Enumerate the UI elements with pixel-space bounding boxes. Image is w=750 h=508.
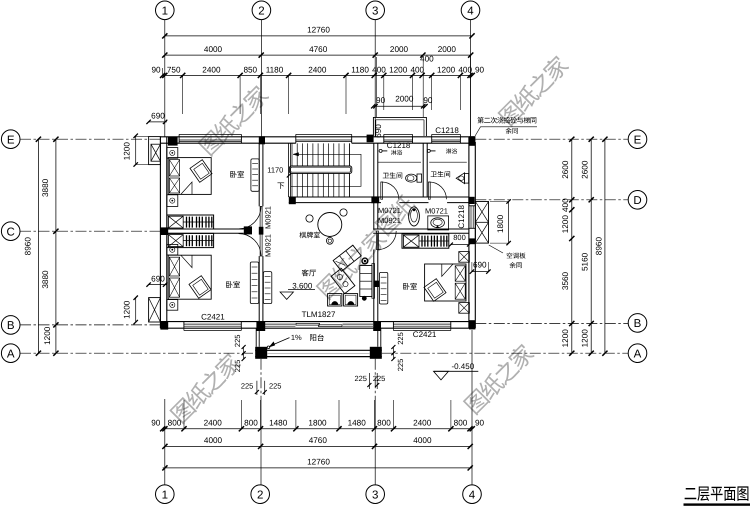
svg-text:1800: 1800 [308,419,327,428]
window C1218 bath1 [384,133,413,135]
svg-text:4: 4 [467,5,474,17]
grid bubble 1 bottom [156,485,175,504]
shower divider bath1 [378,161,421,163]
watermark 图纸之家 bottom-right [462,342,536,416]
door bedroom1 [260,206,262,228]
dresser bedroom3 left wall [379,272,387,304]
svg-text:M0921: M0921 [264,234,273,257]
dim detail chain bottom [163,428,473,430]
svg-text:1200: 1200 [43,326,52,345]
grid bubble A left [1,344,20,363]
balcony wall bottom [255,349,382,351]
svg-text:8960: 8960 [23,237,32,256]
round table [318,213,342,237]
wardrobe bedroom1 [167,215,214,229]
label 淋浴 bath2 [446,148,451,153]
svg-text:1: 1 [162,489,168,501]
fold bedroom1 [181,182,192,194]
balcony wall left [255,328,257,347]
wardrobe bedroom2 [167,233,214,247]
svg-text:2400: 2400 [204,419,223,428]
svg-text:3: 3 [372,489,378,501]
svg-text:1480: 1480 [348,419,367,428]
AC X lower [475,222,488,243]
label 卫生间 bath2 [431,171,437,177]
bay window box top [373,117,426,136]
svg-text:400: 400 [458,65,472,74]
svg-text:225: 225 [396,359,405,372]
svg-text:1200: 1200 [561,215,570,234]
bedside table 3 [167,244,178,255]
column C1 [160,227,168,235]
column C jamb [244,226,252,234]
stair tread edge right [348,143,350,165]
svg-text:4760: 4760 [309,436,328,445]
wall between bathrooms [422,143,424,197]
svg-text:2400: 2400 [413,419,432,428]
wall row C left [167,228,244,230]
svg-text:M0921: M0921 [264,206,273,229]
AC leader line [489,245,503,253]
tick cluster left [243,347,245,359]
pillow 1 [169,160,179,176]
pillow 4 [169,278,179,297]
bed bedroom3 [425,264,466,301]
svg-text:2000: 2000 [390,45,409,54]
grid bubble 2 bottom [251,485,270,504]
wall x3 interior [373,143,375,197]
svg-text:3880: 3880 [41,178,50,197]
label 余同 AC [509,262,515,268]
shower divider bath2 [429,161,467,163]
svg-text:90: 90 [376,96,386,105]
svg-text:2400: 2400 [202,65,221,74]
svg-text:4000: 4000 [204,436,223,445]
witness lines bottom [183,400,185,429]
svg-text:225: 225 [373,374,386,383]
wardrobe bedroom3 [402,234,449,248]
quilt bedroom2 [189,276,211,299]
window C2418 stair [296,133,352,135]
stool 2 [344,294,358,306]
wall row E exterior [160,136,474,138]
gridline 1 vertical [164,20,166,137]
door M0721 bath1 [381,182,383,199]
svg-text:90: 90 [475,419,485,428]
grid bubble E right [628,130,647,149]
svg-text:690: 690 [151,112,165,121]
column E4 [469,136,475,146]
svg-text:1170: 1170 [267,165,283,174]
balcony wall right [377,328,379,347]
label 空调板 [507,252,513,258]
AC X upper [475,202,488,223]
grid bubble 1 top [156,1,175,20]
dresser bedroom2 right wall [250,262,258,304]
dim chain 3880/3880/1200 left [55,139,57,353]
svg-text:5160: 5160 [580,252,589,271]
svg-text:4: 4 [469,489,476,501]
svg-text:M0921: M0921 [378,216,401,225]
stair treads lower flight [292,174,349,197]
sofa back section [360,266,372,297]
gridline C horizontal [20,230,160,232]
svg-text:400: 400 [420,55,434,64]
tick cluster right [392,347,394,359]
svg-text:400: 400 [561,198,570,212]
svg-text:B: B [634,318,642,330]
watermark 图纸之家 top-right [497,53,571,127]
svg-text:3560: 3560 [561,271,570,290]
sliding door TLM1827 [296,323,320,325]
gridline 4 vertical [470,20,472,137]
svg-text:A: A [7,348,15,360]
column C4 right wall [469,238,475,244]
svg-text:C2421: C2421 [413,330,437,339]
svg-text:8960: 8960 [594,237,603,256]
side table dark [362,258,368,264]
watermark 图纸 partial [373,193,417,237]
svg-text:225: 225 [396,332,405,345]
witness lines top [182,75,184,114]
stair left partition [287,143,289,197]
stool 1 [328,294,342,306]
stair walk line [291,154,361,186]
dim chain 2600/5160/1200 right [590,139,592,353]
svg-text:90: 90 [423,96,433,105]
svg-text:225: 225 [233,335,242,348]
balcony slope arrow 1% [267,346,270,349]
svg-text:690: 690 [151,274,165,283]
gridline D horizontal [475,199,628,201]
svg-text:2600: 2600 [580,160,589,179]
svg-text:690: 690 [374,124,383,138]
svg-text:400: 400 [410,65,424,74]
svg-text:2: 2 [258,5,264,17]
washbasin 1 lobby [409,207,420,226]
svg-text:-0.450: -0.450 [451,362,474,371]
bed bedroom2 [168,255,211,299]
window C2418 bedroom1 [179,133,241,135]
svg-text:C2421: C2421 [201,312,225,321]
pillow 6 [455,283,465,299]
svg-text:2000: 2000 [438,45,457,54]
gridline B horizontal [20,324,160,326]
fold bedroom2 [181,255,192,267]
svg-text:1180: 1180 [351,65,369,74]
grid bubble A right [628,344,647,363]
svg-text:1200: 1200 [123,142,132,161]
column B1 [160,322,168,330]
svg-text:1180: 1180 [266,65,284,74]
label 客厅 [302,269,309,276]
svg-text:M0721: M0721 [378,206,401,215]
svg-text:C1218: C1218 [435,126,459,135]
svg-text:TLM1827: TLM1827 [302,310,336,319]
bedside table 1 [167,148,178,159]
stair treads upper flight [292,143,349,165]
bedside table 2 [167,195,178,207]
svg-text:C1218: C1218 [457,204,466,228]
AC platform box [475,202,488,244]
column E3 [367,135,374,143]
label 淋浴 bath1 [391,150,396,155]
svg-text:M0721: M0721 [425,207,448,216]
pillow 3 [169,257,179,276]
bedside table 5 [459,252,470,263]
svg-text:1200: 1200 [389,65,408,74]
bed bedroom1 [168,158,211,195]
grid bubble E left [1,130,20,149]
dresser living left wall [263,272,271,304]
svg-text:3: 3 [372,5,378,17]
balcony column right [370,347,382,359]
wall row B exterior [160,321,472,323]
svg-text:225: 225 [241,381,254,390]
svg-text:12760: 12760 [307,26,330,35]
svg-text:1200: 1200 [437,65,456,74]
balcony column left [255,347,267,359]
label 卧室 bedroom1 [230,171,236,178]
fold bedroom3 [442,264,453,276]
window C2421 left [184,323,241,325]
svg-text:400: 400 [372,65,386,74]
door M0721 bath2 [428,182,430,199]
svg-text:2000: 2000 [395,94,414,103]
quilt bedroom1 [190,160,212,183]
dim detail chain top [163,74,473,76]
svg-text:4000: 4000 [413,436,432,445]
svg-text:90: 90 [475,65,485,74]
svg-text:1200: 1200 [123,300,132,319]
label 卧室 bedroom2 [226,281,232,288]
window C1218 bath2 [432,133,461,135]
svg-text:800: 800 [453,233,466,242]
stair handrail [289,166,351,173]
column B3 [373,322,381,331]
pillow 5 [455,266,465,281]
svg-text:225: 225 [233,360,242,373]
svg-text:C1218: C1218 [387,141,411,150]
dim chain 2600/400/1200/3560/1200 right [571,139,573,353]
label 卧室 bedroom3 [403,283,409,290]
grid bubble 3 bottom [366,485,385,504]
balcony window right section [343,323,373,325]
column B4 [469,320,475,329]
svg-text:225: 225 [354,374,367,383]
watermark 图纸之家 center [315,226,389,300]
wall right exterior [468,137,470,328]
label 下 [277,183,284,189]
svg-text:1%: 1% [291,333,302,342]
svg-text:800: 800 [244,419,258,428]
note 第二次浇捣砼与梯同 [477,117,483,123]
stool circle NW [306,215,313,222]
bedside table 4 [167,300,178,311]
grid bubble 2 top [252,1,271,20]
flue box bottom-left [149,298,161,322]
grid bubble C left [1,222,20,241]
svg-text:1200: 1200 [561,329,570,348]
wall row D [289,196,469,198]
bedside table 6 [459,303,470,314]
svg-text:850: 850 [243,65,257,74]
dim 1800 AC platform [508,202,510,244]
witness lines bay [376,57,378,117]
svg-text:800: 800 [377,419,391,428]
column D3 [371,196,379,203]
svg-text:1: 1 [162,5,168,17]
wall x2 interior [258,143,260,206]
label 棋牌室 [299,232,306,238]
grid bubble 3 top [366,1,385,20]
toilet bath1 [406,174,417,182]
svg-text:E: E [7,134,15,146]
shower head bath1 [379,149,382,152]
grid bubble D right [628,191,647,210]
window C1218 right wall [470,206,472,229]
svg-text:3880: 3880 [41,270,50,289]
svg-text:A: A [634,348,642,360]
dim 4000/4760/4000 bottom [165,445,470,447]
column C x2 [259,227,264,235]
svg-text:4000: 4000 [204,45,223,54]
title 二层平面图 [685,486,749,501]
column D4 [468,197,474,204]
dim 12760 top [165,35,472,37]
column B2 [256,322,265,331]
dark mark [362,296,367,301]
gridline 3 vertical [374,20,376,137]
dim chain 8960 right [604,139,606,353]
flue box top-left [149,137,161,165]
stool circle S [326,237,333,244]
watermark 图纸之家 bottom-left [168,351,242,425]
svg-text:225: 225 [269,381,282,390]
label 阳台 [310,334,316,341]
dim row 4000/4760/2000/2000 top [165,54,471,56]
gridline A horizontal [20,352,255,354]
svg-text:90: 90 [151,65,161,74]
svg-text:2400: 2400 [308,65,327,74]
grid bubble 4 bottom [463,485,482,504]
shower head bath2 [427,149,430,152]
dim 90 2000 90 bay [373,105,425,107]
sofa chaise rotated [333,245,361,271]
grid bubble B right [628,314,647,333]
svg-text:4760: 4760 [309,45,328,54]
stool circle NE [340,209,347,216]
dim chain 8960 left [37,139,39,353]
watermark 图纸之家 top-left [197,83,271,157]
grid bubble B left [1,316,20,335]
column D stair [289,197,296,204]
svg-text:B: B [7,320,15,332]
quilt bedroom3 [424,279,446,302]
svg-text:750: 750 [167,65,181,74]
svg-text:1480: 1480 [269,419,288,428]
gridline 2 vertical [260,20,262,137]
svg-text:D: D [633,195,641,207]
grid bubble 4 top [461,1,480,20]
column E2 [259,136,265,144]
pillow 2 [169,178,179,193]
wall row C right [373,228,469,230]
svg-text:800: 800 [454,419,468,428]
svg-text:1200: 1200 [580,329,589,348]
svg-text:800: 800 [168,419,182,428]
svg-text:90: 90 [151,419,161,428]
label 卫生间 bath1 [383,173,389,179]
svg-text:E: E [634,134,642,146]
toilet bath2 [456,173,464,184]
gridline E horizontal [20,138,160,140]
door bedroom3 [377,231,379,250]
dresser bedroom1 right wall [251,159,259,191]
svg-text:C: C [7,226,15,238]
column x3 mid [373,281,379,287]
coffee table rotated [331,268,355,293]
wall left exterior [159,137,161,328]
dim 12760 bottom [163,467,473,469]
balcony window left section [265,323,295,325]
svg-text:1800: 1800 [496,214,505,233]
svg-text:3.600: 3.600 [292,281,313,290]
svg-text:2: 2 [257,489,263,501]
note leader line [473,127,537,140]
svg-text:12760: 12760 [307,458,330,467]
window C2421 right [393,323,450,325]
svg-text:2600: 2600 [561,160,570,179]
door bedroom2 [260,234,262,256]
washbasin 2 lobby [428,216,449,230]
column E1 [168,137,178,146]
